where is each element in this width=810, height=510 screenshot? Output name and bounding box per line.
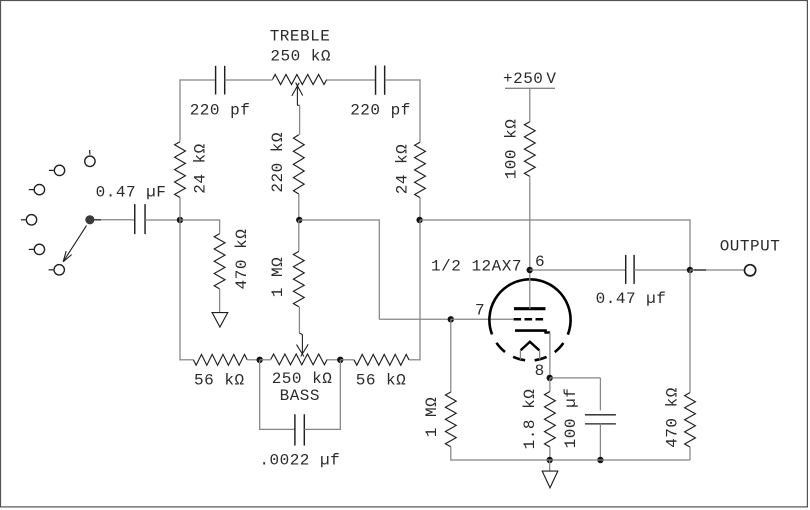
rotary switch SW1 wiper arrow	[63, 226, 86, 262]
svg-text:250 kΩ: 250 kΩ	[272, 370, 333, 388]
wire node B right then down to grid line	[299, 219, 451, 319]
svg-text:1.8 kΩ: 1.8 kΩ	[521, 389, 539, 450]
node B junction dot	[296, 217, 302, 223]
label C6 100 uf	[562, 388, 580, 449]
label C1 0.47 uF	[96, 184, 167, 202]
svg-text:56 kΩ: 56 kΩ	[356, 371, 407, 389]
wire pin 6 node to C5	[530, 269, 626, 271]
capacitor C2 220 pf (left)	[216, 66, 225, 95]
tube U1 plate (anode) bar	[514, 307, 546, 310]
label R1 24 kOhm	[191, 143, 209, 194]
wire grid line into tube	[451, 318, 513, 320]
node G output junction dot	[687, 267, 693, 273]
wire R3 to node B	[298, 194, 300, 220]
svg-text:24 kΩ: 24 kΩ	[393, 144, 411, 195]
wire bass pot to node F	[327, 359, 340, 361]
wire node E down to C4	[260, 360, 295, 430]
treble wiper arrow	[292, 83, 303, 106]
svg-text:0.47 µf: 0.47 µf	[596, 290, 667, 308]
node D grid junction dot	[448, 316, 454, 322]
resistor R3 220 kOhm (middle)	[293, 135, 304, 194]
resistor R5 24 kOhm (right)	[415, 142, 426, 197]
resistor R7 56 kOhm (right)	[354, 354, 409, 365]
label R7 56 kOhm	[356, 371, 407, 389]
wire node E to bass pot	[260, 359, 271, 361]
potentiometer BASS 250 kOhm element	[271, 354, 327, 365]
label R8 100 kOhm	[503, 119, 521, 180]
rotary switch SW1 position 5 contact	[29, 244, 45, 254]
svg-text:8: 8	[535, 362, 545, 380]
wire C4 to node F	[304, 360, 340, 430]
node A junction dot	[177, 217, 183, 223]
ground symbol (left)	[212, 313, 228, 327]
resistor R11 470 kOhm (output load)	[685, 393, 696, 447]
power rail +250 V label	[503, 70, 556, 88]
wire C6 down to node I	[599, 424, 601, 460]
svg-text:470 kΩ: 470 kΩ	[664, 387, 682, 448]
label OUTPUT	[720, 237, 781, 255]
ground symbol (bottom)	[542, 471, 558, 488]
wire node H to ground	[549, 460, 551, 471]
svg-text:470 kΩ: 470 kΩ	[233, 229, 251, 290]
label pin 7	[475, 302, 485, 320]
wire node F to R7	[340, 359, 354, 361]
label TREBLE	[270, 27, 331, 45]
svg-text:220 kΩ: 220 kΩ	[269, 132, 287, 193]
wire treble pot to C3	[327, 79, 376, 81]
power rail +250 V bar	[505, 87, 555, 89]
svg-text:0.47 µF: 0.47 µF	[96, 184, 167, 202]
svg-text:6: 6	[535, 253, 545, 271]
rotary switch SW1 position 6 contact	[49, 265, 65, 275]
tube U1 envelope solid arc (top)	[489, 279, 570, 334]
svg-text:V: V	[546, 70, 556, 88]
wire C5 to node G	[634, 269, 690, 271]
wire R2 to ground	[219, 289, 221, 313]
wire treble wiper down to R3	[299, 105, 301, 135]
wire node A up to R1	[179, 198, 181, 221]
rotary switch SW1 position 3 contact	[29, 184, 45, 194]
svg-text:24 kΩ: 24 kΩ	[191, 143, 209, 194]
resistor R6 56 kOhm (left)	[193, 354, 247, 365]
node pin 8 junction dot	[547, 375, 553, 381]
svg-text:7: 7	[475, 302, 485, 320]
svg-text:TREBLE: TREBLE	[270, 27, 331, 45]
wire R10 to bottom bus	[451, 447, 690, 461]
potentiometer TREBLE 250 kOhm element	[273, 75, 327, 85]
tube U1 heater (filament chevron)	[521, 342, 540, 351]
wire C2 to treble pot	[225, 79, 273, 81]
wire R11 to bottom bus corner	[689, 447, 691, 460]
resistor R4 1 MOhm (middle)	[293, 251, 304, 306]
label tube 1/2 12AX7	[431, 257, 522, 275]
tube U1 grid (dashed)	[514, 318, 547, 321]
label pin 6	[535, 253, 545, 271]
wire node D down to R10	[450, 319, 452, 392]
wire R4 down to bass wiper	[298, 307, 300, 333]
resistor R9 1.8 kOhm (cathode)	[545, 392, 556, 448]
wire node A down to bass bus	[180, 220, 193, 360]
node E junction dot (bass left)	[257, 357, 263, 363]
svg-text:BASS: BASS	[280, 387, 320, 405]
svg-text:+250: +250	[503, 70, 543, 88]
label R10 1 MOhm	[423, 397, 441, 437]
svg-text:1/2 12AX7: 1/2 12AX7	[431, 257, 522, 275]
capacitor C5 0.47 uf (output)	[626, 255, 634, 284]
node C junction dot	[416, 217, 422, 223]
label R4 1 MOhm	[269, 257, 287, 297]
node I junction dot	[597, 457, 603, 463]
label bass value 250 kOhm	[272, 370, 333, 388]
wire C3 to right column corner	[385, 79, 420, 142]
wire R9 to node H	[549, 447, 551, 460]
label C4 .0022 uf	[259, 451, 340, 469]
wire node C to right column corner	[420, 219, 690, 270]
wire C1 to node A	[145, 219, 180, 221]
label BASS	[280, 387, 320, 405]
tube U1 envelope dashed arc (bottom, shared envelope)	[492, 323, 571, 361]
wire R5 to node C	[419, 198, 421, 220]
resistor R2 470 kOhm (left, to ground)	[214, 234, 225, 289]
label pin 8	[535, 362, 545, 380]
label R9 1.8 kOhm	[521, 389, 539, 450]
wire node G to output terminal	[690, 269, 744, 271]
node H junction dot (bottom bus)	[547, 457, 553, 463]
label C3 220 pf	[350, 102, 411, 120]
wire +250V to R8	[529, 88, 531, 121]
label C2 220 pf	[190, 102, 251, 120]
capacitor C3 220 pf (right)	[376, 66, 385, 95]
capacitor C6 100 uf (cathode bypass)	[585, 415, 616, 424]
svg-text:220 pf: 220 pf	[190, 102, 251, 120]
wire R8 down to pin 6 node	[529, 176, 531, 270]
label treble value 250 kOhm	[270, 47, 331, 65]
node pin 6 junction dot	[527, 267, 533, 273]
wire R1 to top bus corner	[180, 79, 216, 141]
rotary switch SW1 common terminal (wiper hub)	[85, 215, 94, 224]
rotary switch SW1 position 2 contact	[49, 165, 65, 175]
bass wiper arrow pointing down at element	[297, 333, 309, 357]
svg-text:220 pf: 220 pf	[350, 102, 411, 120]
wire node C down to bass bus	[409, 220, 420, 360]
resistor R1 24 kOhm (left)	[175, 142, 186, 198]
label R11 470 kOhm	[664, 387, 682, 448]
wire plate lead up to pin 6 node	[529, 270, 531, 309]
label R3 220 kOhm	[269, 132, 287, 193]
label C5 0.47 uf	[596, 290, 667, 308]
tube U1 cathode with lead hook	[515, 331, 550, 333]
rotary switch SW1 position 4 contact	[21, 215, 37, 225]
wire R6 to node E	[247, 359, 260, 361]
wire cathode down to pin 8 node	[549, 333, 551, 378]
label R6 56 kOhm	[194, 371, 245, 389]
wire pin 8 node down to R9	[549, 378, 551, 392]
svg-text:100 µf: 100 µf	[562, 388, 580, 449]
label R5 24 kOhm	[393, 144, 411, 195]
svg-text:1 MΩ: 1 MΩ	[269, 257, 287, 297]
svg-text:100 kΩ: 100 kΩ	[503, 119, 521, 180]
capacitor C1 0.47 uF	[135, 204, 145, 234]
wire node B down to R4	[298, 220, 300, 251]
output terminal circle	[745, 265, 756, 276]
wire node A to R2	[180, 219, 220, 233]
label R2 470 kOhm	[233, 229, 251, 290]
wire switch hub to C1	[95, 219, 135, 221]
svg-text:250 kΩ: 250 kΩ	[270, 47, 331, 65]
node F junction dot (bass right)	[337, 357, 343, 363]
svg-text:.0022 µf: .0022 µf	[259, 451, 340, 469]
resistor R10 1 MOhm (grid leak)	[445, 392, 456, 447]
svg-text:OUTPUT: OUTPUT	[720, 237, 781, 255]
capacitor C4 .0022 uf	[295, 414, 304, 445]
wire node G down to R11	[689, 270, 691, 393]
svg-text:1 MΩ: 1 MΩ	[423, 397, 441, 437]
resistor R8 100 kOhm (plate load)	[524, 122, 535, 177]
svg-text:56 kΩ: 56 kΩ	[194, 371, 245, 389]
tube U1 heater lead stubs	[520, 350, 539, 359]
wire pin 8 node right then down to C6	[550, 378, 601, 411]
rotary switch SW1 position 1 contact	[85, 150, 95, 167]
